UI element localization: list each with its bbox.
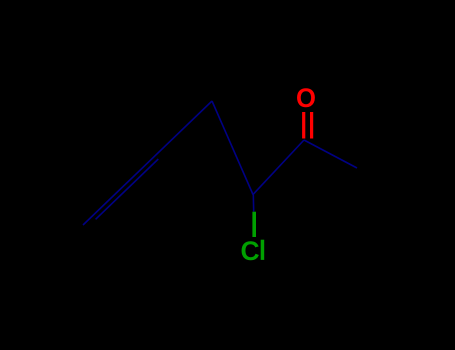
bond C-Cl [252,212,256,237]
bond C5=C6 main line (long left diagonal) [83,101,212,225]
atom label Cl : l stem [261,240,265,260]
bond C5=C6 inner double line [96,159,159,219]
bond C3-Cl navy half [252,195,254,212]
bond C=O double line 1 [302,112,305,139]
bond C=O double line 2 [310,112,313,139]
svg-text:C: C [241,236,260,266]
bond C2-C1 [304,140,357,168]
bond C3-C4 [253,140,304,195]
svg-text:O: O [296,82,316,113]
bond C4-C5 steep [212,101,253,195]
